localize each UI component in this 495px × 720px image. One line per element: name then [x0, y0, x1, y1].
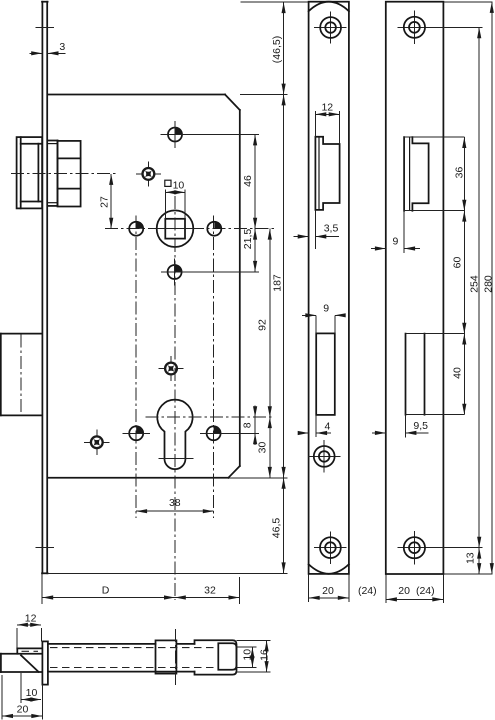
right plate top screw hole	[397, 10, 482, 44]
faceplate bottom extension line	[48, 572, 288, 574]
svg-text:20: 20	[398, 585, 410, 597]
svg-text:12: 12	[321, 101, 333, 113]
svg-text:10: 10	[26, 687, 38, 699]
lock case outline with chamfered right corners	[48, 95, 240, 478]
position hole left of follower (136,229)	[129, 222, 143, 236]
square 10 label and dimension	[165, 180, 185, 219]
svg-text:21,5: 21,5	[242, 229, 254, 250]
middle plate top screw hole	[314, 11, 347, 43]
svg-text:254: 254	[469, 275, 481, 293]
dimension row D and 32	[42, 574, 240, 605]
svg-text:9,5: 9,5	[413, 420, 428, 432]
svg-text:46: 46	[242, 175, 254, 187]
dimension 13	[464, 548, 479, 574]
svg-text:10: 10	[173, 180, 185, 192]
svg-text:10: 10	[242, 649, 254, 661]
svg-text:(24): (24)	[358, 585, 377, 597]
latch tail flange inside case	[48, 141, 58, 206]
dimension 10 (latch bar height)	[237, 647, 257, 667]
middle plate deadbolt cutout	[316, 333, 335, 415]
dimension 254	[469, 27, 481, 547]
svg-text:20: 20	[322, 585, 334, 597]
right plate deadbolt cutout	[406, 334, 465, 415]
faceplate edge view (Stulp)	[42, 2, 48, 574]
dimension 16 (latch housing height)	[237, 640, 271, 672]
latch tail sleeve	[195, 640, 237, 674]
dimension 36	[454, 137, 466, 211]
dimension column A: 8	[241, 406, 255, 446]
position hole top (175,134.5)	[161, 121, 260, 148]
position hole right of follower (214,229)	[207, 222, 221, 236]
dimension 9,5	[372, 415, 429, 438]
vertical center line right holes column	[213, 216, 215, 519]
dimension 20 (latch head depth)	[2, 675, 43, 720]
dimension column C: 46,5	[271, 478, 284, 574]
screw hole X bottom left (97,442)	[84, 430, 109, 455]
screw-axis tick bottom on faceplate	[35, 546, 54, 548]
case top extension line to dimension column	[240, 94, 288, 96]
dimension 3,5	[294, 210, 339, 249]
middle plate bottom screw hole	[314, 531, 347, 563]
svg-text:40: 40	[452, 367, 464, 379]
deadbolt edge view	[0, 334, 42, 416]
position hole below follower (175,272)	[161, 259, 259, 286]
dimension column C: 187	[271, 95, 283, 478]
svg-text:9: 9	[392, 236, 398, 248]
cylinder axis line	[146, 416, 274, 418]
vertical center line through follower and cylinder	[174, 196, 176, 600]
dimension 27	[98, 174, 111, 229]
dimension 280	[444, 2, 495, 574]
svg-text:8: 8	[241, 422, 253, 428]
svg-text:36: 36	[454, 167, 466, 179]
dimension 20 (24) middle plate	[309, 574, 377, 602]
svg-text:13: 13	[464, 552, 476, 564]
latch tail box	[58, 141, 81, 207]
svg-text:4: 4	[324, 420, 330, 432]
middle plate latch cutout with lip	[315, 137, 339, 210]
position hole right of cylinder (214,433)	[200, 426, 259, 440]
svg-text:(46,5): (46,5)	[271, 36, 283, 63]
svg-text:9: 9	[323, 303, 329, 315]
dimension column C: (46,5)	[271, 2, 284, 94]
svg-text:20: 20	[17, 704, 29, 716]
svg-text:30: 30	[257, 442, 269, 454]
dimension 20 (24) right plate	[386, 574, 444, 603]
dimension column B: 30	[257, 417, 270, 478]
latch tail tube	[48, 644, 195, 672]
euro profile cylinder hole	[157, 400, 193, 470]
svg-text:92: 92	[257, 319, 269, 331]
latch head plan view with bevel	[0, 648, 41, 672]
hidden lines inner latch bar	[50, 648, 218, 668]
faceplate in latch detail	[42, 641, 48, 684]
follower square 10mm	[165, 219, 185, 239]
svg-text:3,5: 3,5	[324, 223, 339, 235]
dimension column B: 92	[257, 229, 270, 418]
dimension 38	[136, 497, 214, 511]
screw hole X top (148,174)	[136, 161, 161, 186]
svg-text:D: D	[102, 585, 110, 597]
screw hole X above cylinder (171,368)	[158, 356, 183, 381]
dimension column A: 21,5	[242, 229, 255, 272]
vertical center line left holes column	[135, 216, 137, 519]
top extension line at y=1.6 between case and middle plate	[241, 1, 309, 3]
right plate bottom screw hole	[397, 531, 482, 565]
svg-text:187: 187	[271, 274, 283, 292]
svg-text:46,5: 46,5	[271, 518, 283, 539]
svg-text:27: 27	[98, 196, 110, 208]
svg-text:280: 280	[483, 275, 495, 293]
position hole left of cylinder (136,433)	[123, 426, 150, 440]
follower circle	[157, 210, 194, 247]
middle plate mid screw hole	[308, 440, 341, 472]
middle faceplate outline	[309, 2, 349, 574]
svg-text:12: 12	[25, 613, 37, 625]
svg-text:32: 32	[204, 585, 216, 597]
dimension 3 (faceplate thickness)	[30, 41, 66, 53]
svg-text:16: 16	[258, 649, 270, 661]
latch axis center line	[11, 173, 116, 175]
dimension 40	[452, 334, 465, 415]
center line in latch detail	[175, 629, 177, 688]
latch tail end block	[218, 643, 236, 670]
svg-text:60: 60	[451, 257, 463, 269]
svg-text:3: 3	[59, 41, 65, 53]
dimension 12 (middle plate)	[315, 101, 339, 144]
dimension 60	[451, 211, 464, 334]
right plate latch cutout with lip	[404, 137, 464, 211]
svg-text:38: 38	[169, 497, 181, 509]
dimension 10 (latch protrusion)	[21, 673, 41, 703]
follower axis line	[105, 228, 274, 230]
case bottom extension line to dimension column	[228, 477, 287, 479]
dimension 4 (middle plate)	[302, 415, 331, 437]
latch head (edge view, outside faceplate)	[17, 137, 42, 208]
dimension 9 (right plate)	[371, 211, 420, 253]
dimension 12 (latch detail)	[17, 613, 42, 649]
latch spring clip	[156, 640, 177, 673]
svg-text:(24): (24)	[416, 585, 435, 597]
screw-axis tick top on faceplate	[35, 27, 54, 29]
dimension column A: 46	[242, 135, 255, 229]
right strike plate outline	[386, 2, 444, 574]
dimension 9 (middle plate)	[302, 303, 345, 334]
